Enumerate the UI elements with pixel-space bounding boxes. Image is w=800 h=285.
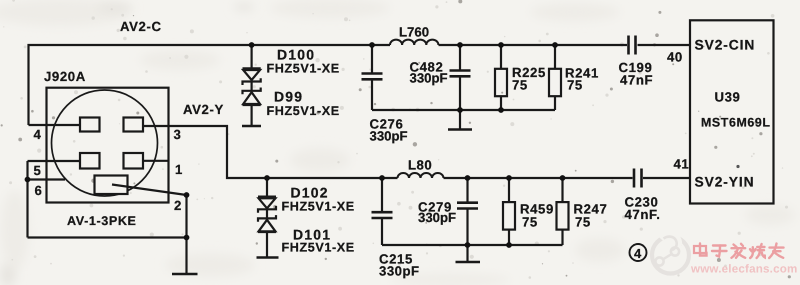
svg-text:47nF: 47nF <box>620 73 653 88</box>
svg-text:41: 41 <box>674 157 690 172</box>
svg-text:L760: L760 <box>399 25 429 40</box>
svg-text:5: 5 <box>34 163 42 178</box>
svg-text:75: 75 <box>512 78 528 93</box>
svg-text:330pF: 330pF <box>410 71 448 86</box>
svg-text:75: 75 <box>575 215 591 230</box>
svg-text:FHZ5V1-XE: FHZ5V1-XE <box>267 104 340 118</box>
svg-text:J920A: J920A <box>44 69 86 84</box>
svg-text:AV-1-3PKE: AV-1-3PKE <box>67 214 137 228</box>
svg-text:U39: U39 <box>715 90 741 105</box>
svg-text:FHZ5V1-XE: FHZ5V1-XE <box>267 62 340 76</box>
svg-text:75: 75 <box>567 78 583 93</box>
svg-text:MST6M69L: MST6M69L <box>701 116 771 130</box>
svg-text:www.elecfans.com: www.elecfans.com <box>690 263 798 276</box>
svg-text:AV2-C: AV2-C <box>120 19 162 34</box>
svg-text:330pF: 330pF <box>370 129 408 144</box>
svg-text:D99: D99 <box>274 89 303 105</box>
svg-text:FHZ5V1-XE: FHZ5V1-XE <box>282 200 355 214</box>
svg-text:47nF.: 47nF. <box>625 207 661 222</box>
svg-text:4: 4 <box>34 127 42 142</box>
svg-text:3: 3 <box>174 127 182 142</box>
svg-text:40: 40 <box>667 50 683 65</box>
svg-text:SV2-CIN: SV2-CIN <box>695 38 756 53</box>
svg-text:D100: D100 <box>277 47 315 63</box>
svg-text:75: 75 <box>522 215 538 230</box>
svg-text:L80: L80 <box>408 158 432 173</box>
svg-text:FHZ5V1-XE: FHZ5V1-XE <box>282 241 355 255</box>
svg-text:1: 1 <box>175 162 183 177</box>
svg-text:4: 4 <box>634 246 642 261</box>
svg-text:6: 6 <box>35 183 43 198</box>
svg-text:AV2-Y: AV2-Y <box>183 102 224 117</box>
svg-text:D102: D102 <box>291 185 329 201</box>
svg-text:330pF: 330pF <box>418 210 456 225</box>
svg-text:2: 2 <box>174 198 182 213</box>
svg-text:330pF: 330pF <box>379 264 420 279</box>
svg-text:SV2-YIN: SV2-YIN <box>695 175 755 190</box>
